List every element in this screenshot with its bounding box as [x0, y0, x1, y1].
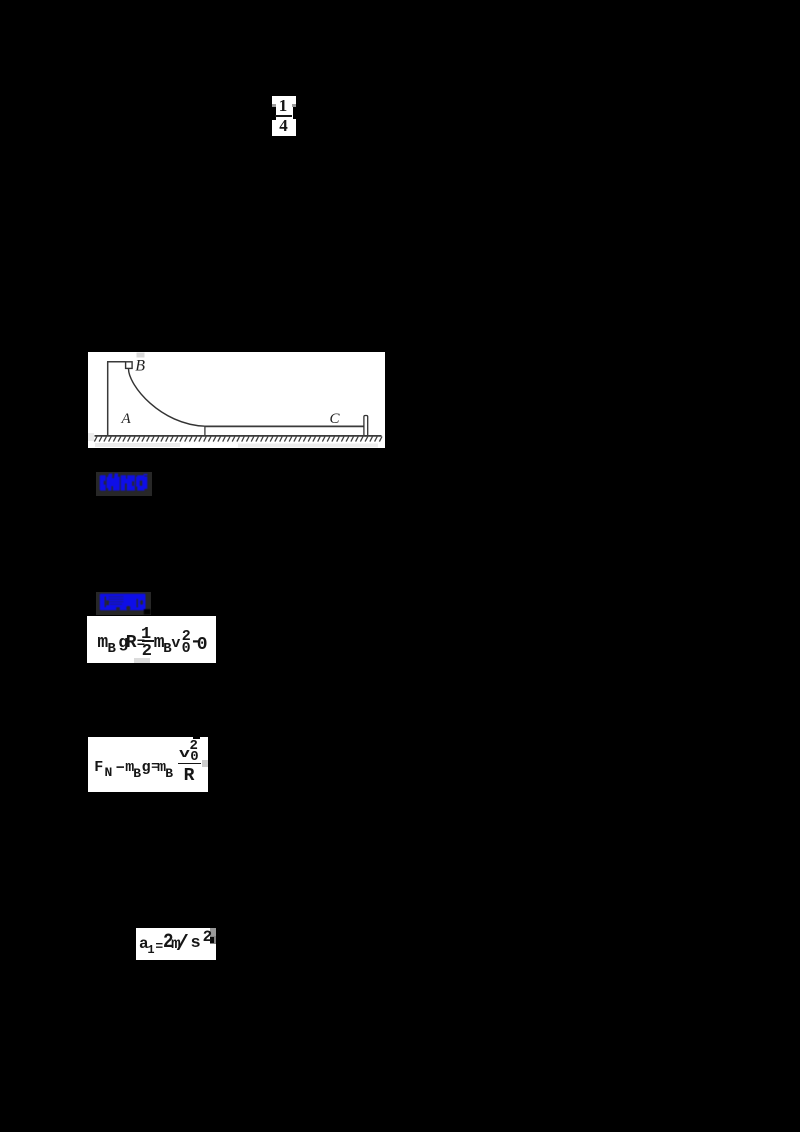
ramp vertical wall	[106, 361, 108, 435]
formula 1: mB gR = 1/2 mB v0^2 - 0	[87, 616, 216, 664]
wall C at right	[363, 415, 367, 436]
physics diagram	[88, 352, 385, 448]
ground hatching	[94, 436, 382, 441]
tick below curve end	[203, 426, 205, 436]
block B	[125, 361, 132, 368]
svg-text:C: C	[329, 411, 340, 427]
faint gray mark above B	[136, 352, 144, 357]
svg-text:B: B	[135, 357, 145, 374]
curved ramp surface	[128, 368, 204, 425]
plank line	[204, 425, 363, 427]
formula 3: a1 = 2m/ s^2	[136, 928, 215, 960]
blue label [jie da]	[96, 592, 151, 615]
ground line	[94, 434, 381, 436]
ramp top edge	[107, 360, 126, 362]
fraction 1/4 patch	[272, 96, 296, 136]
svg-text:A: A	[120, 411, 131, 427]
black bite at box corner	[144, 609, 151, 614]
blue label [fen xi]	[96, 472, 152, 496]
faint gray bottom bands	[95, 443, 180, 447]
formula 2: FN - mB g = mB v0^2/R	[88, 737, 208, 792]
